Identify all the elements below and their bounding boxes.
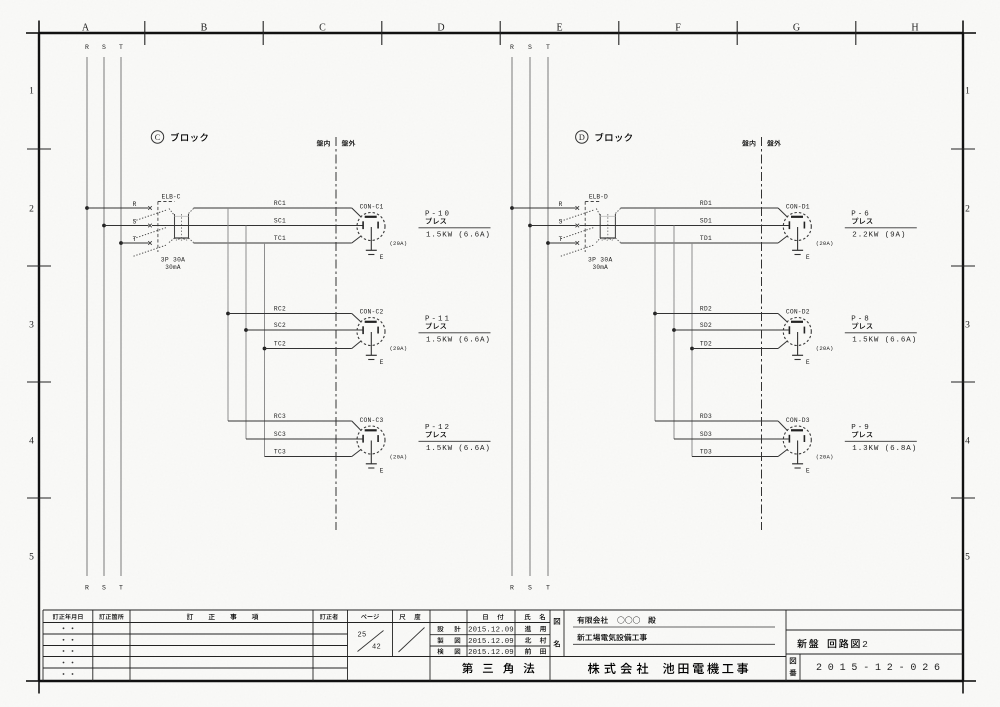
frame column letters A-H bbox=[82, 23, 919, 34]
svg-text:P-10: P-10 bbox=[425, 211, 451, 219]
svg-text:SC2: SC2 bbox=[274, 322, 286, 329]
svg-text:1.5KW (6.6A): 1.5KW (6.6A) bbox=[426, 336, 491, 344]
svg-text:1.5KW (6.6A): 1.5KW (6.6A) bbox=[426, 231, 491, 239]
svg-text:D: D bbox=[437, 23, 444, 34]
block title text (block) bbox=[171, 133, 179, 142]
load underline bbox=[419, 332, 491, 334]
svg-text:S: S bbox=[133, 219, 137, 226]
svg-text:R: R bbox=[559, 201, 563, 208]
frame row numbers 1-5 bbox=[29, 87, 970, 563]
svg-text:2015-12-026: 2015-12-026 bbox=[816, 663, 946, 674]
svg-text:E: E bbox=[556, 23, 562, 34]
power feeder T phase vertical (block D) bbox=[547, 57, 549, 576]
svg-text:B: B bbox=[201, 23, 208, 34]
svg-text:3: 3 bbox=[965, 321, 970, 331]
row seizu (drafting) bbox=[437, 637, 460, 643]
third angle projection daisankakuhou bbox=[462, 663, 534, 674]
svg-text:4: 4 bbox=[29, 437, 34, 447]
svg-text:T: T bbox=[559, 236, 563, 243]
svg-text:T: T bbox=[119, 585, 123, 592]
ground pin CON-C1 bbox=[370, 227, 372, 250]
ground symbol E bbox=[366, 250, 377, 254]
load underline bbox=[419, 440, 491, 442]
svg-text:R: R bbox=[85, 44, 89, 51]
wire T feeder to breaker bbox=[121, 242, 149, 244]
svg-text:SD1: SD1 bbox=[700, 217, 712, 224]
ground pin CON-C2 bbox=[370, 332, 372, 355]
svg-text:(20A): (20A) bbox=[816, 240, 834, 247]
svg-text:CON-C2: CON-C2 bbox=[360, 309, 384, 316]
svg-text:SD2: SD2 bbox=[700, 322, 712, 329]
svg-text:(20A): (20A) bbox=[390, 454, 408, 461]
svg-text:1.5KW (6.6A): 1.5KW (6.6A) bbox=[426, 445, 491, 453]
power feeder S phase vertical (block D) bbox=[529, 57, 531, 576]
svg-text:CON-D1: CON-D1 bbox=[786, 204, 810, 211]
power feeder R phase vertical (block C) bbox=[86, 57, 88, 576]
svg-text:TD1: TD1 bbox=[700, 235, 712, 242]
receptacle CON-D3 bbox=[783, 426, 811, 454]
drawing name shinban kairozu 2 bbox=[797, 639, 868, 650]
svg-text:RD1: RD1 bbox=[700, 200, 712, 207]
svg-text:TC1: TC1 bbox=[274, 235, 286, 242]
svg-text:ELB-C: ELB-C bbox=[162, 194, 181, 201]
page number 25/42 bbox=[357, 631, 383, 652]
receptacle CON-D1 bbox=[783, 213, 811, 241]
load type puresu (press) bbox=[852, 218, 858, 224]
load underline bbox=[845, 440, 917, 442]
ground pin CON-D3 bbox=[797, 441, 799, 464]
svg-text:(20A): (20A) bbox=[390, 240, 408, 247]
svg-text:42: 42 bbox=[372, 643, 381, 651]
wire RC2 bbox=[228, 313, 352, 315]
branch riser S phase (block C) bbox=[245, 226, 247, 440]
company name kabushiki gaisha ikeda denki koji bbox=[588, 663, 748, 674]
wire T diagonal into CON-C3 bbox=[352, 449, 362, 456]
wire SC3 bbox=[246, 438, 363, 440]
svg-text:2: 2 bbox=[862, 639, 868, 650]
zumei column (drawing name) bbox=[553, 618, 560, 647]
node tap R on feeder (block C) bbox=[85, 206, 89, 210]
wire S feeder to breaker bbox=[530, 225, 576, 227]
svg-text:CON-C1: CON-C1 bbox=[360, 204, 384, 211]
wire TD1 breaker to receptacle bbox=[621, 242, 779, 244]
branch riser R phase (block C) bbox=[227, 208, 229, 421]
feeder phase labels top R S T bbox=[85, 44, 123, 51]
wire R diagonal into CON-D2 bbox=[778, 314, 788, 323]
power feeder S phase vertical (block C) bbox=[103, 57, 105, 576]
load underline bbox=[845, 227, 917, 229]
drafting name bbox=[525, 637, 546, 643]
label bangai (outside panel) bbox=[342, 140, 349, 146]
junction R riser row2 bbox=[653, 312, 657, 316]
power feeder T phase vertical (block C) bbox=[120, 57, 122, 576]
wire S feeder to breaker bbox=[104, 225, 149, 227]
receptacle CON-C1 bbox=[357, 213, 385, 241]
panel boundary line (block D) bbox=[761, 137, 763, 530]
breaker input phase labels R S T bbox=[559, 201, 563, 243]
svg-text:R: R bbox=[510, 44, 514, 51]
svg-text:P-9: P-9 bbox=[851, 424, 871, 432]
header teisei sha (revised by) bbox=[320, 614, 326, 620]
svg-text:P-8: P-8 bbox=[851, 316, 871, 324]
svg-text:T: T bbox=[546, 585, 550, 592]
svg-text:E: E bbox=[806, 254, 810, 261]
svg-text:(20A): (20A) bbox=[390, 345, 408, 352]
frame column ticks bbox=[145, 21, 856, 45]
svg-text:P-11: P-11 bbox=[425, 316, 451, 324]
wire RC1 breaker to receptacle bbox=[194, 207, 352, 209]
ground pin CON-D1 bbox=[797, 227, 799, 250]
project title shinkojo denki setsubi koji bbox=[577, 634, 584, 641]
customer underline bbox=[573, 626, 775, 628]
svg-text:P-6: P-6 bbox=[851, 211, 871, 219]
load type puresu (press) bbox=[426, 218, 432, 224]
block title text (block) bbox=[595, 133, 603, 142]
header page bbox=[361, 614, 367, 618]
node tap R on feeder (block D) bbox=[510, 206, 514, 210]
svg-text:D: D bbox=[579, 133, 585, 142]
header teisei jiko (revision items) bbox=[187, 614, 258, 620]
wire R diagonal into CON-D3 bbox=[778, 421, 788, 431]
svg-text:R: R bbox=[510, 585, 514, 592]
svg-text:25: 25 bbox=[357, 632, 366, 640]
load type puresu (press) bbox=[852, 323, 858, 329]
ground symbol E bbox=[366, 464, 377, 468]
svg-text:TC3: TC3 bbox=[274, 448, 286, 455]
svg-text:R: R bbox=[85, 585, 89, 592]
breaker ELB-C contacts and linkage bbox=[134, 202, 175, 257]
svg-text:30mA: 30mA bbox=[592, 264, 608, 271]
wire R diagonal into CON-D1 bbox=[778, 208, 788, 217]
wire RD2 bbox=[655, 313, 778, 315]
svg-text:1: 1 bbox=[965, 87, 970, 97]
svg-text:SD3: SD3 bbox=[700, 431, 712, 438]
revision rows dots bbox=[63, 627, 74, 675]
svg-text:4: 4 bbox=[965, 437, 970, 447]
svg-text:G: G bbox=[793, 23, 800, 34]
customer name yugen gaisha OOO dono bbox=[577, 616, 655, 623]
svg-text:E: E bbox=[380, 468, 384, 475]
svg-text:S: S bbox=[528, 585, 532, 592]
row sekkei (design) bbox=[437, 626, 460, 632]
wire SC1 breaker to receptacle bbox=[152, 225, 363, 227]
ground symbol E bbox=[792, 355, 803, 359]
svg-text:H: H bbox=[911, 23, 918, 34]
feeder phase labels top R S T bbox=[510, 44, 550, 51]
title block grid bbox=[43, 610, 963, 681]
wire R diagonal into CON-C2 bbox=[352, 314, 362, 323]
label bannai (inside panel) bbox=[317, 140, 324, 146]
wire SD2 bbox=[674, 329, 789, 331]
svg-text:S: S bbox=[559, 219, 563, 226]
wire R feeder to breaker bbox=[87, 207, 149, 209]
svg-text:CON-D2: CON-D2 bbox=[786, 309, 810, 316]
branch riser T phase (block D) bbox=[691, 243, 693, 457]
block title circle C bbox=[151, 131, 163, 143]
power feeder R phase vertical (block D) bbox=[511, 57, 513, 576]
approval table header shimei (name) bbox=[525, 614, 545, 620]
header shakudo (scale) bbox=[399, 614, 420, 620]
junction S riser row2 bbox=[672, 328, 676, 332]
branch riser S phase (block D) bbox=[673, 226, 675, 440]
svg-text:2: 2 bbox=[965, 205, 970, 215]
branch riser R phase (block D) bbox=[654, 208, 656, 421]
ground pin CON-C3 bbox=[370, 441, 372, 464]
svg-text:P-12: P-12 bbox=[425, 424, 451, 432]
svg-text:ELB-D: ELB-D bbox=[589, 194, 608, 201]
svg-text:5: 5 bbox=[29, 553, 34, 563]
svg-text:(20A): (20A) bbox=[816, 454, 834, 461]
breaker ELB-D zero-phase CT bbox=[596, 209, 620, 243]
wire T diagonal into CON-C2 bbox=[352, 341, 362, 349]
svg-text:S: S bbox=[102, 585, 106, 592]
breaker ELB-D contacts and linkage bbox=[561, 202, 600, 257]
wire R feeder to breaker bbox=[512, 207, 576, 209]
junction T riser row2 bbox=[263, 347, 267, 351]
wire R diagonal into CON-C3 bbox=[352, 421, 362, 431]
wire T diagonal into CON-D3 bbox=[778, 449, 788, 456]
frame row ticks bbox=[27, 149, 975, 498]
svg-text:RC2: RC2 bbox=[274, 305, 286, 312]
load type puresu (press) bbox=[426, 323, 432, 329]
wire TD3 bbox=[692, 456, 778, 458]
svg-text:E: E bbox=[380, 359, 384, 366]
svg-text:2: 2 bbox=[29, 205, 34, 215]
svg-text:RC1: RC1 bbox=[274, 200, 286, 207]
ground symbol E bbox=[366, 355, 377, 359]
wire TD2 bbox=[692, 348, 778, 350]
design name bbox=[525, 626, 546, 632]
svg-text:T: T bbox=[119, 44, 123, 51]
svg-text:30mA: 30mA bbox=[165, 264, 181, 271]
svg-text:E: E bbox=[806, 468, 810, 475]
panel boundary line (block C) bbox=[335, 137, 337, 530]
svg-text:CON-C3: CON-C3 bbox=[360, 417, 384, 424]
node tap T on feeder (block C) bbox=[119, 241, 123, 245]
breaker ELB-D rating 3P 30A 30mA bbox=[588, 257, 612, 272]
wire T feeder to breaker bbox=[548, 242, 576, 244]
svg-text:T: T bbox=[133, 236, 137, 243]
receptacle CON-C2 bbox=[357, 318, 385, 346]
wire SC2 bbox=[246, 329, 363, 331]
svg-text:C: C bbox=[155, 133, 161, 142]
svg-text:2015.12.09: 2015.12.09 bbox=[468, 649, 514, 657]
svg-text:A: A bbox=[82, 23, 90, 34]
feeder phase labels bottom R S T bbox=[85, 585, 123, 592]
scale slash bbox=[399, 628, 425, 653]
wire RD1 breaker to receptacle bbox=[621, 207, 779, 209]
receptacle CON-D2 bbox=[783, 318, 811, 346]
svg-text:RC3: RC3 bbox=[274, 413, 286, 420]
header teisei nengappi (revision date) bbox=[53, 614, 59, 620]
row kenzu (checking) bbox=[437, 648, 460, 654]
wire R diagonal into CON-C1 bbox=[352, 208, 362, 217]
svg-text:CON-D3: CON-D3 bbox=[786, 417, 810, 424]
junction S riser row2 bbox=[244, 328, 248, 332]
svg-text:5: 5 bbox=[965, 553, 970, 563]
zuban column (drawing number) bbox=[789, 658, 796, 677]
node tap S on feeder (block D) bbox=[528, 224, 532, 228]
svg-text:R: R bbox=[133, 201, 137, 208]
svg-text:SC1: SC1 bbox=[274, 217, 286, 224]
label bannai (inside panel) bbox=[742, 140, 749, 146]
approval table header hizuke (date) bbox=[483, 614, 503, 620]
branch riser T phase (block C) bbox=[264, 243, 266, 457]
svg-text:TD2: TD2 bbox=[700, 340, 712, 347]
load type puresu (press) bbox=[852, 431, 858, 437]
label bangai (outside panel) bbox=[767, 140, 774, 146]
svg-text:E: E bbox=[806, 359, 810, 366]
svg-text:TC2: TC2 bbox=[274, 340, 286, 347]
wire T diagonal into CON-D1 bbox=[778, 236, 788, 243]
svg-text:E: E bbox=[380, 254, 384, 261]
junction R riser row2 bbox=[226, 312, 230, 316]
svg-text:TD3: TD3 bbox=[700, 448, 712, 455]
svg-text:F: F bbox=[675, 23, 681, 34]
svg-text:S: S bbox=[528, 44, 532, 51]
svg-text:S: S bbox=[102, 44, 106, 51]
svg-text:1: 1 bbox=[29, 87, 34, 97]
wire RC3 bbox=[228, 420, 352, 422]
junction T riser row2 bbox=[690, 347, 694, 351]
svg-text:1.5KW (6.6A): 1.5KW (6.6A) bbox=[852, 336, 917, 344]
breaker ELB-C rating 3P 30A 30mA bbox=[161, 257, 185, 272]
checking name bbox=[525, 648, 546, 654]
ground pin CON-D2 bbox=[797, 332, 799, 355]
receptacle CON-C3 bbox=[357, 426, 385, 454]
header teisei kasho (revision location) bbox=[99, 614, 105, 620]
breaker input phase labels R S T bbox=[133, 201, 137, 243]
svg-text:1.3KW (6.8A): 1.3KW (6.8A) bbox=[852, 445, 917, 453]
wire T diagonal into CON-C1 bbox=[352, 236, 362, 243]
svg-text:2.2KW (9A): 2.2KW (9A) bbox=[852, 231, 906, 239]
load underline bbox=[419, 227, 491, 229]
load underline bbox=[845, 332, 917, 334]
node tap S on feeder (block C) bbox=[102, 224, 106, 228]
wire TC3 bbox=[265, 456, 352, 458]
svg-text:3: 3 bbox=[29, 321, 34, 331]
ground symbol E bbox=[792, 464, 803, 468]
wire RD3 bbox=[655, 420, 778, 422]
svg-text:C: C bbox=[319, 23, 326, 34]
svg-text:2015.12.09: 2015.12.09 bbox=[468, 638, 514, 646]
project underline bbox=[573, 643, 775, 645]
svg-text:RD2: RD2 bbox=[700, 305, 712, 312]
wire SD1 breaker to receptacle bbox=[579, 225, 789, 227]
wire T diagonal into CON-D2 bbox=[778, 341, 788, 349]
svg-text:RD3: RD3 bbox=[700, 413, 712, 420]
wire TC1 breaker to receptacle bbox=[194, 242, 352, 244]
svg-text:T: T bbox=[546, 44, 550, 51]
svg-text:3P 30A: 3P 30A bbox=[588, 257, 612, 264]
feeder phase labels bottom R S T bbox=[510, 585, 550, 592]
svg-text:SC3: SC3 bbox=[274, 431, 286, 438]
wire SD3 bbox=[674, 438, 789, 440]
node tap T on feeder (block D) bbox=[546, 241, 550, 245]
load type puresu (press) bbox=[426, 431, 432, 437]
svg-text:2015.12.09: 2015.12.09 bbox=[468, 626, 514, 634]
svg-text:3P 30A: 3P 30A bbox=[161, 257, 185, 264]
ground symbol E bbox=[792, 250, 803, 254]
svg-text:(20A): (20A) bbox=[816, 345, 834, 352]
breaker ELB-C zero-phase CT bbox=[169, 209, 194, 243]
block title circle D bbox=[576, 131, 588, 143]
wire TC2 bbox=[265, 348, 352, 350]
